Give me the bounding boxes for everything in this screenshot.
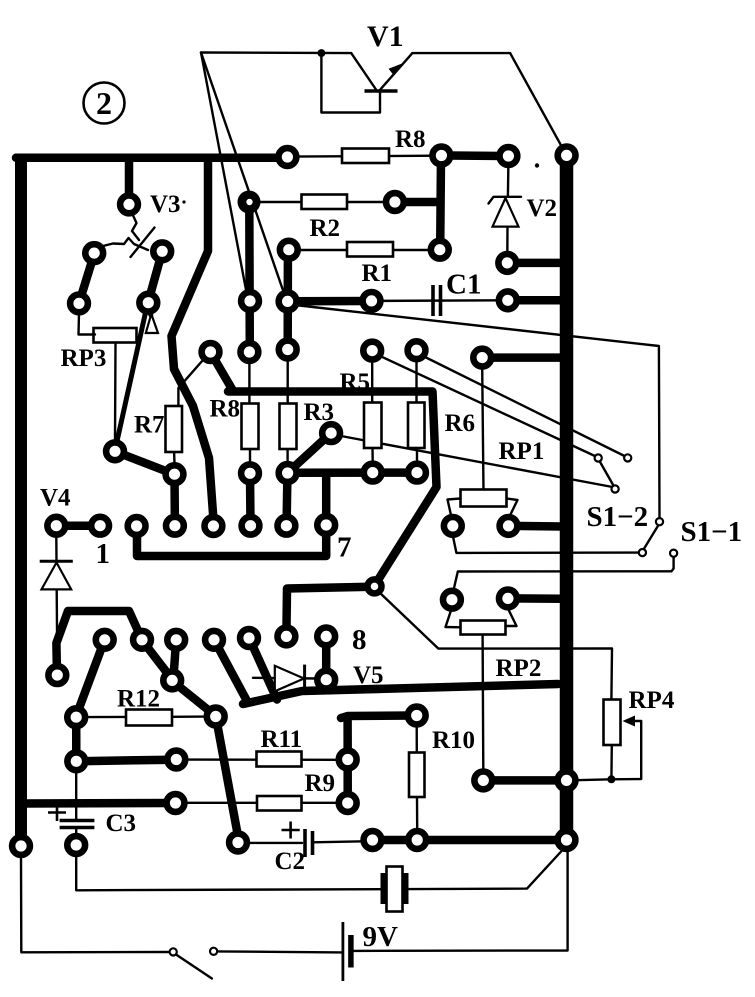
wire RP1 pad to S1-2 line [453, 536, 639, 553]
wire R11 leads [187, 758, 338, 761]
trace diag row638 e [250, 640, 277, 700]
pad row638 d [205, 631, 223, 649]
pad R2 left filled [238, 191, 261, 214]
pad 7 [317, 516, 335, 534]
pad row525 e [205, 517, 223, 535]
trace long diagonal to C2 pad [216, 719, 238, 840]
trace main bus vertical [560, 157, 574, 842]
pad RP2 wiper bottom [474, 772, 492, 790]
wire RP2 wiper [481, 635, 484, 771]
fuse [381, 867, 409, 912]
trace RP1 right pad to bus [511, 522, 562, 531]
resistor R1 body [347, 242, 393, 257]
svg-text:R8: R8 [395, 126, 426, 153]
trace RP3 diagonal [116, 308, 147, 448]
wire S1-2 arm upper [600, 461, 615, 487]
trace pad210 to bus diagonal [212, 354, 233, 389]
svg-text:C1: C1 [446, 269, 481, 301]
trace RP2 wiper pad to bus [486, 776, 563, 785]
pad RP1 right [500, 517, 518, 535]
potentiometer RP1 left foot [448, 499, 461, 517]
pad row525 c [128, 517, 146, 535]
resistor R6 column body [408, 403, 425, 449]
trace V4 bottom loop [56, 611, 141, 671]
trace R11 pad to R9 pad [343, 762, 352, 800]
trace mid horizontal bus y392 [228, 392, 437, 585]
svg-text:RP2: RP2 [496, 655, 542, 682]
wire R1 row [291, 249, 435, 251]
trace column x249 [245, 204, 254, 350]
pad R1 left [280, 241, 298, 259]
svg-text:R9: R9 [305, 770, 336, 797]
trace R2 to bus column [399, 198, 437, 207]
pad C1 right [499, 291, 517, 309]
resistor R12 body [126, 710, 172, 726]
potentiometer RP3 wiper arrow [146, 314, 158, 333]
resistor R3 column body [280, 404, 297, 450]
wire R12 leads [86, 716, 126, 719]
pad C3 top [67, 752, 85, 770]
battery 9V [343, 922, 351, 981]
resistor R9 body [257, 796, 302, 811]
svg-text:R1: R1 [362, 260, 393, 287]
potentiometer RP1 body [461, 490, 507, 507]
trace pad680 to pad716 [174, 682, 215, 715]
wire node 8 to RP4 wiper feed [380, 593, 612, 699]
pad RP2 left [443, 591, 461, 609]
svg-text:V4: V4 [40, 485, 71, 512]
transistor V3 strokes [99, 200, 186, 257]
svg-text:2: 2 [96, 85, 112, 121]
node RP4 junction dot [607, 775, 615, 783]
pad V2 top [500, 147, 518, 165]
wire pointer line to junction pad [201, 53, 286, 300]
node S1-2 fixed contact 1 [595, 454, 602, 461]
pad row638 c [167, 631, 185, 649]
node stray dot [535, 163, 539, 167]
pad R12 right [207, 708, 225, 726]
potentiometer RP4 wiper arrow [623, 716, 636, 727]
wire R9 leads [186, 802, 338, 804]
pad R3col bottom [279, 464, 297, 482]
pad R10 top [408, 707, 426, 725]
svg-text:R5: R5 [340, 369, 371, 396]
pad R5col bottom [364, 464, 382, 482]
trace pad7 up to row y472 [322, 473, 331, 522]
potentiometer RP2 body [461, 621, 506, 635]
wire V2 leads [507, 163, 510, 196]
trace diag row638 d [215, 642, 247, 702]
pad RP1 left [444, 517, 462, 535]
pad V5 [317, 671, 335, 689]
wire moving contact line [341, 436, 613, 487]
trace V4 pad link [58, 521, 98, 530]
pad V2 bottom [498, 254, 516, 272]
potentiometer RP1 right foot [507, 499, 518, 517]
trace V3 stub [125, 160, 134, 196]
wire bottom ground rail [21, 857, 170, 952]
pad bus top [558, 147, 576, 165]
svg-text:V5: V5 [353, 662, 384, 689]
potentiometer RP4 body [604, 700, 621, 746]
svg-text:R8: R8 [210, 396, 241, 423]
pad R11 left [167, 751, 185, 769]
trace R3col pad down [282, 475, 291, 524]
pad row638 a [96, 631, 114, 649]
trace column x287 [283, 251, 292, 347]
wire R5 column leads [371, 360, 373, 403]
wire pointer line to pad row (left) [201, 53, 247, 296]
potentiometer RP3 body [94, 328, 137, 343]
trace C1 pad to bus [510, 296, 562, 305]
pad row301 a [241, 292, 259, 310]
trace long low horizontal [243, 684, 558, 704]
pad V4 bottom [48, 666, 66, 684]
diode V4 leads [55, 536, 58, 561]
thick border left [15, 154, 27, 843]
pad row350 c [279, 341, 297, 359]
potentiometer RP3 left foot [79, 313, 96, 335]
pad switch TL [85, 244, 103, 262]
pad C2 left [229, 834, 247, 852]
svg-text:S1−1: S1−1 [681, 516, 743, 548]
resistor R8 column body [242, 404, 259, 450]
trace vertical column x441 [436, 157, 445, 248]
resistor R7 body [166, 406, 183, 452]
transistor V1 [321, 53, 510, 112]
wire battery left [218, 951, 342, 952]
trace switch quad right diagonal [149, 253, 162, 301]
node S1-2 moving contact [612, 485, 619, 492]
svg-text:8: 8 [352, 624, 367, 656]
diode V5 lead [253, 677, 317, 680]
pad R2 right [386, 193, 404, 211]
trace long S curve [172, 161, 214, 519]
svg-text:C3: C3 [106, 810, 137, 837]
pad bus 780 [558, 772, 576, 790]
pad switch TR [153, 242, 171, 260]
pad row350 b [241, 343, 259, 361]
trace switch quad left diagonal [80, 254, 95, 302]
pad V3 [120, 196, 138, 214]
pad switch BL [70, 295, 88, 313]
svg-text:S1−2: S1−2 [587, 501, 649, 533]
wire R8 column leads [248, 360, 250, 404]
svg-text:V1: V1 [367, 20, 404, 53]
wire RP1 wiper [482, 368, 483, 490]
wire R10 leads [416, 726, 418, 753]
trace drop to R11 pad [343, 717, 352, 757]
pad R12 left [67, 708, 85, 726]
resistor R10 body [409, 753, 425, 798]
wire frame line junction to S1 [295, 305, 660, 518]
trace RP1 wiper pad to bus [485, 353, 562, 362]
capacitor C3 plates [60, 819, 95, 822]
node S1-1 contact [670, 550, 677, 557]
node bottom switch contact left [170, 948, 177, 955]
diode V5 [275, 665, 305, 693]
wire R7 bottom lead [173, 449, 176, 464]
wire battery right to bus pad [353, 849, 568, 951]
svg-text:1: 1 [96, 538, 111, 570]
wire R3 column leads [287, 358, 289, 404]
potentiometer RP2 right foot [506, 609, 517, 626]
pad row638 e [240, 629, 258, 647]
trace RP3 pad to R7 pad [117, 452, 174, 474]
thick border top [16, 154, 284, 163]
resistor R5 column body [364, 403, 382, 449]
wire V1 emitter to bus top pad [510, 53, 566, 155]
pad R11 right [339, 751, 357, 769]
pad row350 e [408, 341, 426, 359]
pad V4 top [47, 517, 65, 535]
node junction dot on V1 rail [317, 49, 325, 57]
pad row525 g [278, 517, 296, 535]
trace node8 to pad column [286, 587, 372, 634]
pad R9 right [339, 794, 357, 812]
pad row301 c [363, 292, 381, 310]
resistor R2 body [302, 195, 348, 210]
pad row525 f [242, 517, 260, 535]
trace V2 pad to bus [510, 259, 562, 268]
pad R6col bottom [408, 464, 426, 482]
trace diag row638 a [77, 642, 105, 716]
wire R8 top row [290, 154, 435, 157]
trace R7 pad down [170, 476, 179, 524]
trace diag row638 c [174, 642, 177, 677]
pad node 8 junction [368, 579, 382, 593]
trace R8col pad down [246, 475, 255, 524]
trace R8 right to V2 pad [448, 151, 505, 160]
svg-text:RP3: RP3 [61, 345, 107, 372]
svg-text:R7: R7 [134, 412, 165, 439]
pad switch BR [139, 294, 157, 312]
pad R7 bottom [166, 465, 184, 483]
pad C3 bottom [67, 836, 85, 854]
node S1-2 contact bottom [639, 549, 646, 556]
wire top rail to V1 [201, 51, 351, 54]
pad R1 right [431, 241, 449, 259]
wire RP4 body bottom lead [610, 745, 613, 779]
trace row y472 [290, 468, 414, 477]
wire fuse rail [76, 850, 562, 890]
wire S1-2 arm [644, 525, 659, 550]
node S1-2 contact top [656, 518, 663, 525]
wire RP4 bottom loop [576, 721, 641, 780]
pad row301 junction [279, 293, 297, 311]
svg-text:RP1: RP1 [499, 438, 545, 465]
wire RP2 pad to S1-1 line [454, 557, 674, 589]
pad RP2 right [499, 590, 517, 608]
trace diag row638 b [143, 642, 172, 679]
pad R9 left [167, 794, 185, 812]
capacitor C2 plates [303, 829, 307, 857]
trace C3 column top [72, 719, 81, 759]
pad R3 [322, 424, 340, 442]
pad row525 b [91, 517, 109, 535]
trace C2 row thick [375, 836, 563, 845]
svg-text:V2: V2 [527, 195, 558, 222]
capacitor C1 plates [431, 285, 435, 316]
pad mid 680 [163, 672, 181, 690]
trace RP2 right pad to bus [510, 594, 562, 603]
wire S1-2 contact line from pad 2 [424, 357, 626, 457]
switch arm bottom [176, 955, 212, 979]
pad RP3 bottom [106, 442, 124, 460]
trace R3 pad diagonal [289, 434, 330, 472]
capacitor C3 plus [48, 811, 66, 814]
trace junction row [289, 297, 369, 306]
svg-text:R2: R2 [310, 215, 341, 242]
trace R9 row from border [20, 799, 172, 808]
pad row350 d [363, 342, 381, 360]
pad R8 row right [433, 147, 451, 165]
svg-text:R11: R11 [261, 726, 303, 753]
svg-text:R10: R10 [432, 727, 475, 754]
capacitor C2 plus [282, 829, 300, 832]
label circled 2 [84, 83, 125, 124]
svg-text:R12: R12 [117, 686, 160, 713]
node S1-2 fixed contact 2 [624, 454, 631, 461]
wire R6 column leads [415, 360, 417, 403]
pad row525 d [166, 517, 184, 535]
wire R7 top lead [178, 360, 203, 405]
wire RP3 wiper line [114, 344, 117, 441]
pad border bottom [12, 837, 30, 855]
pad row638 f [278, 628, 296, 646]
svg-text:RP4: RP4 [629, 687, 675, 714]
svg-text:V3: V3 [150, 191, 181, 218]
wire R2 row [252, 201, 390, 203]
svg-text:9V: 9V [363, 921, 399, 953]
pad row638 b [133, 631, 151, 649]
trace C3 row [78, 760, 174, 762]
pad bus 840 [558, 831, 576, 849]
diode V4 [40, 561, 73, 589]
pad C2 right [364, 831, 382, 849]
wire C1 row [378, 299, 502, 302]
potentiometer RP2 left foot [446, 611, 461, 627]
diode V2 [489, 197, 522, 227]
node bottom switch contact right [210, 948, 217, 955]
pad row350 a [202, 343, 220, 361]
svg-text:C2: C2 [275, 848, 306, 875]
pad RP1 wiper [473, 349, 491, 367]
trace y715 with drop [341, 716, 414, 719]
wire S1-2 contact line from pad [380, 356, 596, 457]
resistor R8 top body [342, 149, 389, 164]
svg-text:7: 7 [337, 532, 352, 564]
pad R10 bottom [408, 831, 426, 849]
trace U shape pad7 [137, 527, 326, 556]
pad R8col bottom [241, 464, 259, 482]
svg-text:R3: R3 [304, 399, 335, 426]
pad R8 row left [279, 148, 297, 166]
resistor R11 body [257, 752, 302, 767]
pad 8 top [317, 628, 335, 646]
wire C2 row [247, 842, 302, 844]
svg-text:R6: R6 [445, 410, 476, 437]
wire C3 column [75, 770, 77, 819]
trace pad 8 stub [322, 638, 331, 677]
